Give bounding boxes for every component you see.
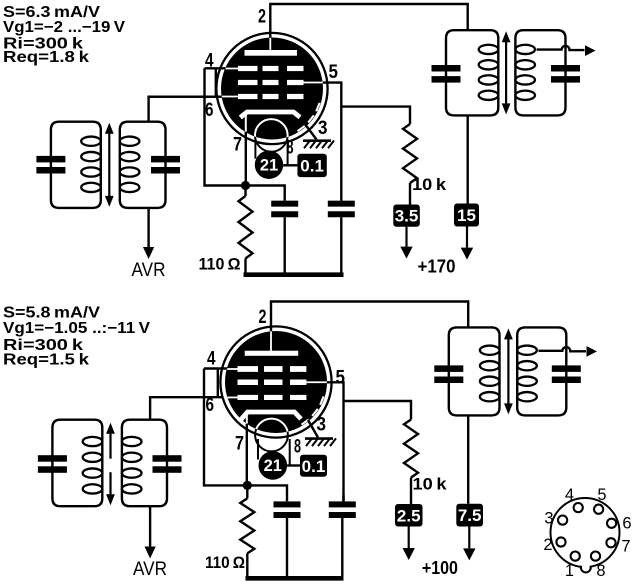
tube V1 heater dome	[255, 119, 288, 152]
arrow 15 to supply (top)	[466, 227, 468, 248]
svg-text:3: 3	[318, 118, 328, 139]
svg-text:5: 5	[597, 486, 606, 504]
svg-text:3: 3	[544, 510, 553, 528]
wire pin 2 to anode supply	[270, 4, 467, 38]
wire heater lead left (top)	[254, 140, 256, 159]
svg-text:10 k: 10 k	[413, 475, 448, 494]
svg-text:Req=1.8 k: Req=1.8 k	[3, 49, 89, 66]
socket key pin	[581, 563, 591, 573]
svg-text:7: 7	[233, 135, 242, 156]
chassis ground (top tube shield)	[303, 139, 331, 142]
arrow 2.5 to supply (bottom)	[408, 527, 410, 549]
chassis ground (bottom tube shield)	[305, 437, 333, 440]
IF transformer T4 primary coil	[480, 346, 500, 355]
wire meter to 0.1 box (top)	[283, 164, 297, 166]
tube V2 heater dome	[255, 419, 288, 452]
socket pin 2	[556, 537, 565, 546]
AVR arrow (bottom)	[145, 547, 156, 559]
wire transformer primary to 7.5 box (bottom)	[467, 415, 469, 503]
tube socket outline	[551, 498, 620, 567]
value box 2.5 (bottom)	[395, 504, 423, 527]
capacitor screen bypass (bottom)	[329, 501, 356, 507]
tube V2 cathode lead (internal)	[246, 413, 248, 424]
tube V2 anode lead (pin 2, internal)	[270, 331, 272, 353]
tube V2 grid lead-ins (internal)	[227, 368, 240, 370]
tube V2 grids g1 g2 g3 (white dashes)	[238, 366, 259, 372]
wire screen to 10k resistor (bottom)	[344, 401, 412, 420]
wire screen capacitor to bus (bottom)	[341, 518, 343, 578]
resistor 10k (bottom)	[404, 420, 418, 478]
tube V1 anode lead (pin 2, internal)	[269, 38, 271, 52]
wire pin 5 screen lead (bottom)	[327, 382, 344, 501]
meter disc 2.1 (bottom)	[259, 451, 288, 480]
svg-text:2: 2	[258, 6, 266, 27]
svg-text:8: 8	[294, 437, 301, 458]
wire screen capacitor to bus (top)	[340, 217, 342, 275]
IF transformer T2 secondary coil	[515, 45, 535, 54]
value box 7.5 (bottom)	[456, 504, 483, 527]
meter disc 2.1 (top)	[255, 151, 283, 179]
socket pin 5	[594, 505, 603, 514]
svg-text:AVR: AVR	[133, 559, 167, 580]
svg-text:10 k: 10 k	[412, 175, 447, 194]
capacitor cathode bypass (bottom)	[274, 501, 301, 507]
cathode junction node (top)	[241, 181, 250, 190]
wire cathode capacitor to bus (bottom)	[286, 518, 288, 578]
svg-text:AVR: AVR	[132, 260, 166, 281]
svg-text:4: 4	[565, 486, 574, 504]
svg-text:Vg1=−2 ...−19 V: Vg1=−2 ...−19 V	[3, 19, 126, 36]
wire pin 4 rail down to cathode junction (bottom)	[204, 369, 244, 486]
svg-text:5: 5	[329, 62, 339, 83]
svg-text:110 Ω: 110 Ω	[205, 553, 245, 572]
tube V2 electrode assembly (black fill)	[225, 331, 327, 433]
socket pin 8	[591, 552, 600, 561]
IF transformer T1 primary winding outline	[51, 122, 101, 208]
tube V1 cathode lead (internal)	[245, 113, 247, 132]
IF transformer T3 secondary coil	[122, 437, 142, 446]
socket pin 1	[571, 552, 580, 561]
svg-text:0.1: 0.1	[302, 457, 326, 476]
wire T4 secondary output with hop	[538, 347, 586, 351]
IF transformer T3 secondary tuning capacitor	[153, 455, 182, 462]
socket pin 7	[606, 538, 615, 547]
wire pin 2 to anode supply (bottom)	[271, 302, 468, 332]
wire cathode capacitor to bus (top)	[284, 217, 286, 275]
wire T1 secondary bottom to AVR	[147, 208, 149, 247]
output arrow (top)	[585, 45, 596, 56]
svg-text:S=5.8 mA/V: S=5.8 mA/V	[3, 305, 101, 322]
tube V2 cathode (white bridge)	[241, 412, 301, 420]
wire transformer primary to 15 box (top)	[467, 115, 469, 203]
wire g3 internal tie (bottom)	[217, 369, 219, 398]
svg-text:0.1: 0.1	[300, 157, 324, 176]
svg-text:2: 2	[543, 536, 552, 554]
arrow 3.5 to supply (top)	[405, 227, 407, 247]
IF transformer T3 tuning arrow	[109, 432, 111, 459]
wire pin 4 stub	[205, 67, 226, 69]
IF transformer T3 primary coil	[83, 437, 103, 446]
IF transformer T2 secondary tuning capacitor	[551, 65, 580, 72]
wire cathode lead down	[245, 132, 247, 183]
svg-text:2.5: 2.5	[397, 506, 421, 525]
svg-text:Req=1.5 k: Req=1.5 k	[3, 352, 89, 369]
IF transformer T2 tuning arrow	[505, 40, 507, 105]
capacitor cathode bypass (top)	[271, 201, 298, 207]
value box 15 (top)	[454, 204, 479, 227]
tube V1 grids g1 g2 g3 (white dashes)	[238, 66, 258, 71]
svg-text:3.5: 3.5	[395, 207, 419, 226]
arrow 7.5 to supply (bottom)	[468, 527, 470, 549]
svg-text:15: 15	[457, 206, 476, 225]
svg-text:7.5: 7.5	[458, 506, 482, 525]
svg-text:21: 21	[264, 457, 282, 475]
IF transformer T3 secondary winding outline	[122, 420, 167, 507]
value box 3.5 (top)	[393, 205, 420, 227]
resistor 110 ohm (bottom)	[246, 485, 248, 498]
capacitor screen bypass (top)	[328, 201, 355, 207]
svg-text:110 Ω: 110 Ω	[199, 255, 241, 274]
wire screen to 10k resistor	[341, 107, 410, 124]
IF transformer T4 secondary coil	[517, 346, 537, 355]
IF transformer T2 secondary winding outline	[515, 30, 565, 115]
tube V2 envelope	[220, 326, 331, 437]
IF transformer T4 tuning arrow	[507, 337, 509, 405]
IF transformer T2 primary coil	[479, 45, 499, 54]
wire T1 secondary top to grid g1	[149, 97, 222, 122]
wire pin 6 grid input	[149, 95, 222, 97]
socket pin 3	[558, 516, 567, 525]
wire heater lead right (top)	[287, 140, 289, 166]
svg-text:8: 8	[596, 562, 605, 580]
IF transformer T1 secondary tuning capacitor	[151, 156, 180, 163]
svg-text:6: 6	[206, 395, 215, 416]
svg-text:+170: +170	[418, 257, 456, 277]
socket pin 4	[574, 503, 583, 512]
cathode junction node (bottom)	[243, 481, 252, 490]
IF transformer T3 primary winding outline	[52, 420, 102, 507]
wire heater lead left (bottom)	[257, 439, 259, 460]
svg-text:3: 3	[317, 415, 327, 436]
IF transformer T1 secondary winding outline	[120, 122, 166, 208]
tube V1 metallisation marks	[316, 103, 319, 111]
svg-text:6: 6	[205, 100, 214, 121]
resistor 110 ohm (top)	[244, 186, 246, 197]
wire T2 secondary output with hop	[537, 46, 585, 50]
wire pin 4 stub (bottom)	[204, 367, 227, 369]
tube V1 cathode (white bridge)	[240, 112, 300, 118]
IF transformer T1 secondary coil	[120, 137, 140, 146]
wire pin 3 to chassis	[306, 126, 317, 140]
svg-text:7: 7	[621, 538, 630, 556]
IF transformer T4 primary tuning capacitor	[434, 365, 463, 372]
svg-text:Vg1=−1.05 ..:−11 V: Vg1=−1.05 ..:−11 V	[3, 320, 151, 337]
IF transformer T1 tuning arrow	[108, 132, 110, 198]
IF transformer T2 primary winding outline	[446, 30, 498, 115]
wire pin 4 rail down to cathode junction	[205, 68, 243, 185]
IF transformer T2 primary tuning capacitor	[432, 65, 461, 72]
IF transformer T3 primary tuning capacitor	[38, 455, 67, 462]
output arrow (bottom)	[587, 346, 598, 357]
svg-text:21: 21	[260, 157, 278, 175]
svg-text:7: 7	[235, 434, 244, 455]
svg-text:1: 1	[565, 562, 574, 580]
ground bus (top)	[244, 272, 344, 277]
svg-text:2: 2	[259, 307, 267, 328]
svg-text:+100: +100	[422, 558, 458, 578]
wire T3 secondary bottom to AVR	[149, 506, 151, 546]
socket pin 6	[607, 519, 616, 528]
wire pin5 down to screen capacitor (bottom)	[342, 495, 344, 501]
IF transformer T4 primary winding outline	[449, 327, 500, 415]
tube V1 envelope	[216, 33, 327, 144]
wire T3 secondary top to grid g1	[150, 397, 227, 420]
svg-text:5: 5	[336, 367, 346, 388]
tube V1 anode plate	[245, 50, 298, 56]
tube V1 grid lead-ins (internal)	[225, 68, 240, 70]
wire meter to 0.1 box (bottom)	[287, 464, 300, 466]
wire g3 internal tie	[215, 68, 217, 96]
wire cathode lead down (bottom)	[246, 424, 248, 482]
resistor 10k (top)	[403, 124, 417, 183]
tube V2 anode plate	[245, 351, 299, 356]
svg-text:6: 6	[622, 515, 631, 533]
IF transformer T1 primary tuning capacitor	[36, 156, 65, 163]
tube V1 electrode assembly (black fill)	[221, 38, 323, 140]
wire pin 5 screen lead	[323, 83, 342, 201]
value box 0.1 (top)	[297, 154, 326, 177]
wire junction to cathode capacitor (bottom)	[247, 485, 287, 501]
IF transformer T1 primary coil	[81, 137, 101, 146]
AVR arrow (top)	[143, 247, 154, 259]
svg-text:4: 4	[207, 349, 216, 370]
ground bus (bottom)	[246, 576, 344, 581]
tube V2 metallisation marks	[320, 396, 323, 404]
IF transformer T4 secondary tuning capacitor	[552, 365, 581, 372]
value box 0.1 (bottom)	[300, 455, 327, 477]
IF transformer T4 secondary winding outline	[517, 327, 566, 415]
wire junction to cathode capacitor (top)	[246, 186, 285, 201]
wire heater lead right (bottom)	[289, 439, 291, 466]
svg-text:4: 4	[205, 51, 214, 72]
wire pin 3 to chassis (bottom)	[308, 420, 318, 438]
